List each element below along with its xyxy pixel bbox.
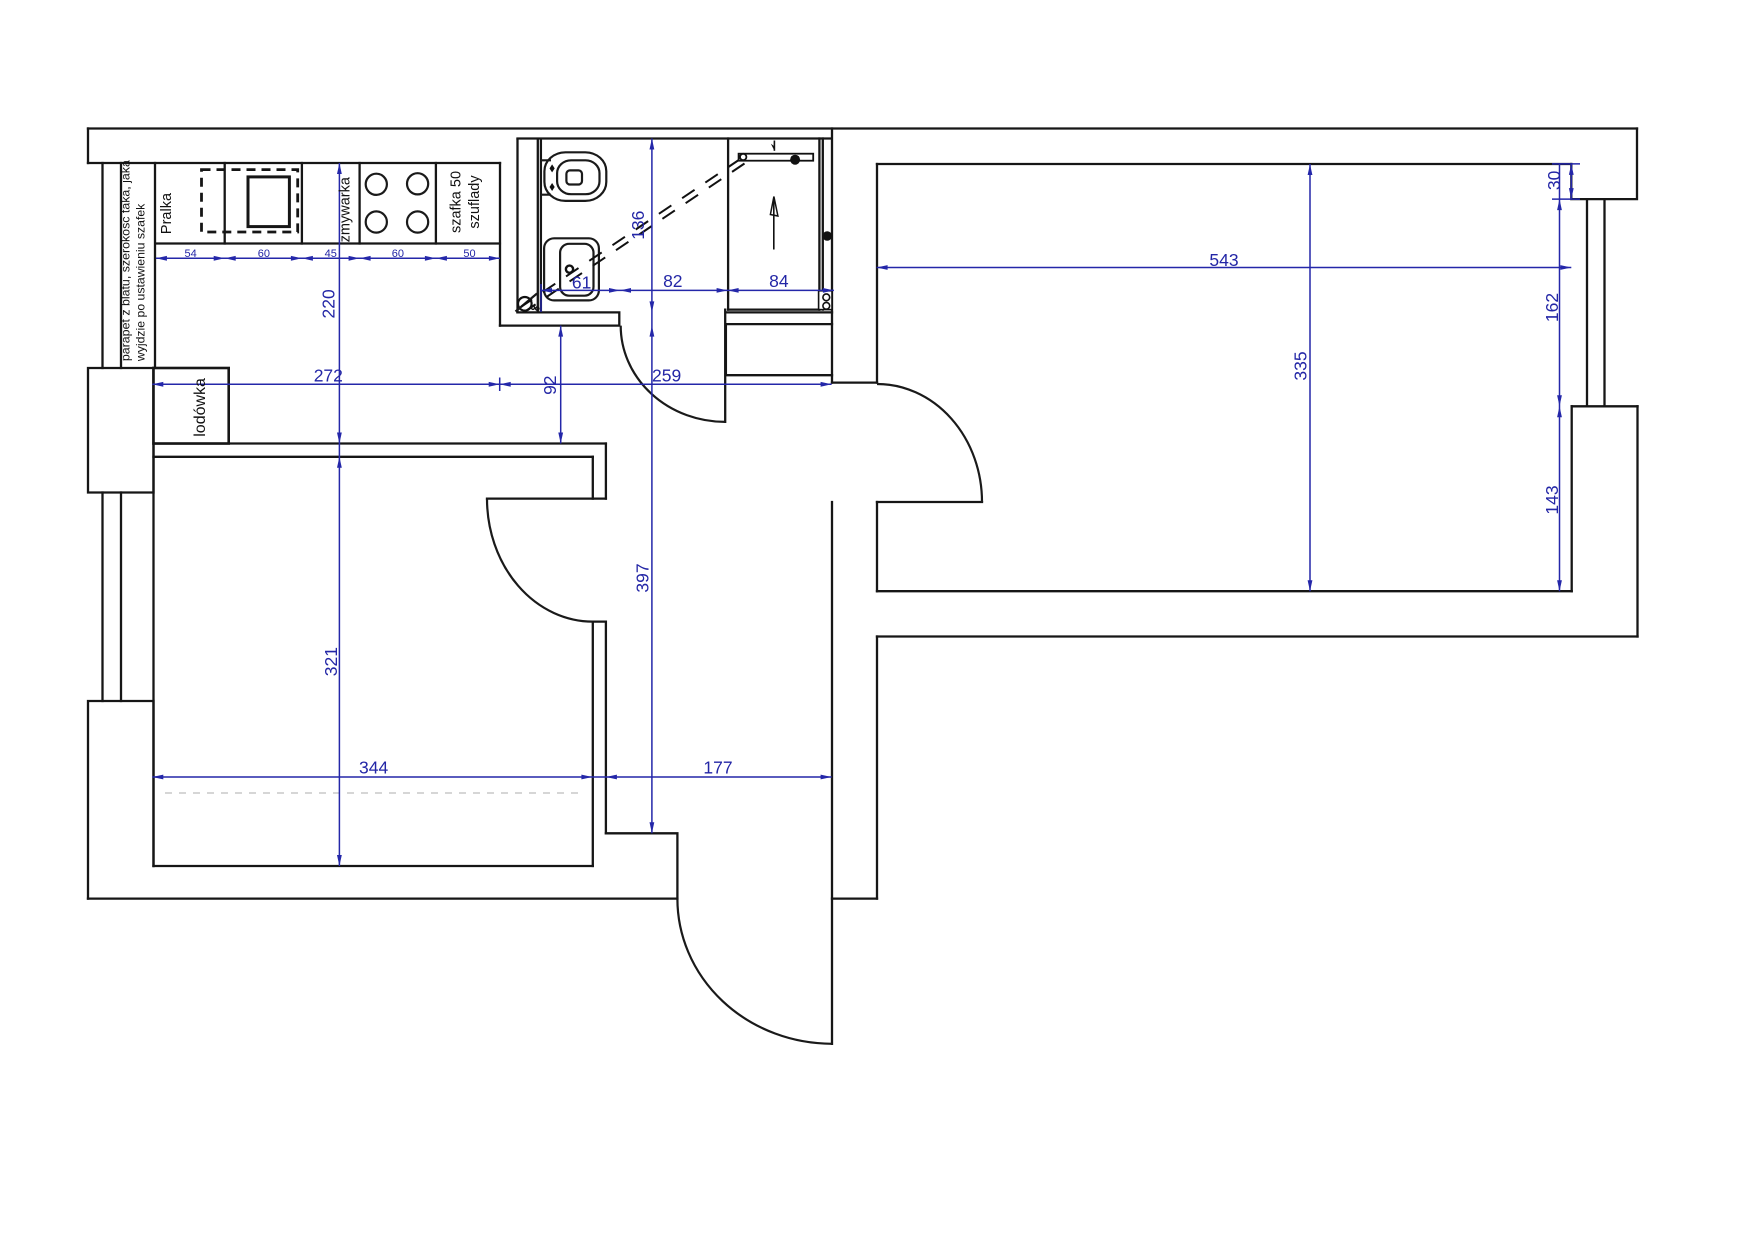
- svg-text:543: 543: [1209, 250, 1238, 270]
- door leaf: living room door leaf (horizontal): [877, 501, 982, 503]
- svg-text:220: 220: [319, 289, 339, 318]
- wall: kitchen/bedroom divider lower line: [154, 456, 593, 458]
- wall: top-left corner cap: [87, 129, 89, 164]
- dimension line: horizontal 543: [877, 267, 1572, 269]
- svg-text:143: 143: [1542, 485, 1562, 514]
- wall: top exterior wall outer line: [88, 127, 1637, 129]
- dimension line: vertical 136/397: [651, 139, 653, 834]
- appliance: oven/sink solid square: [248, 177, 289, 227]
- svg-text:92: 92: [540, 375, 560, 394]
- window: right window glass lines: [1587, 199, 1605, 406]
- fixture: shower door hinge box bottom right: [819, 291, 832, 310]
- svg-text:321: 321: [321, 647, 341, 676]
- partition: shower glass double line right: [819, 139, 822, 310]
- window: left lower window glass lines (bedroom window): [103, 493, 122, 702]
- fixture: shower rail left hinge circle: [740, 154, 746, 160]
- svg-text:344: 344: [359, 758, 388, 778]
- svg-text:parapet z blatu, szerokosc tak: parapet z blatu, szerokosc taka, jaka: [119, 160, 133, 361]
- fixture: toilet mounting stars: [550, 164, 555, 172]
- svg-text:45: 45: [325, 248, 337, 260]
- fixture: shower door hinge circles bottom right: [823, 294, 830, 301]
- svg-text:60: 60: [258, 248, 270, 260]
- svg-text:zmywarka: zmywarka: [337, 176, 353, 242]
- wall: bedroom bottom interior line: [154, 865, 593, 867]
- fixture: toilet flush square: [566, 170, 582, 184]
- svg-text:272: 272: [314, 366, 343, 386]
- wall: bathroom top line: [518, 137, 832, 139]
- wall: living room left wall lower piece: [876, 502, 878, 591]
- svg-text:50: 50: [463, 248, 475, 260]
- wall: hall right wall below living room band: [876, 637, 878, 899]
- svg-text:61: 61: [572, 272, 591, 292]
- dimension line: counters 54/60/45/60/50: [156, 257, 500, 259]
- fixture: shower head slash: [516, 294, 538, 312]
- door leaf: bathroom door leaf (vertical): [724, 310, 726, 422]
- svg-text:84: 84: [769, 271, 789, 291]
- fixture: shower head small dots: [531, 306, 534, 309]
- fixture: washbasin inner: [560, 244, 593, 296]
- fixture: toilet outer bowl: [544, 152, 606, 201]
- dimension line: horizontal 272/259: [152, 383, 831, 385]
- wall: top wall inner line above kitchen: [88, 162, 500, 164]
- fixture: shower rail bar: [739, 154, 814, 161]
- svg-text:30: 30: [1544, 170, 1564, 190]
- fixture: wall-mount dot on right shower wall: [822, 231, 832, 241]
- wall: living room interior bottom line: [877, 590, 1572, 592]
- wall block: shaft next to bathroom door (hall): [726, 324, 832, 375]
- dimension line: vertical 30/162/143: [1559, 164, 1561, 591]
- dimension line: vertical 220/321: [338, 163, 340, 866]
- wall: bottom exterior wall: [88, 897, 677, 899]
- wall: hall right wall lower piece + entry door leaf line: [831, 502, 833, 1044]
- dimension line: vertical 92: [560, 326, 562, 444]
- window: left upper window glass lines (kitchen window): [103, 163, 122, 368]
- wall: bathroom bottom line right of door: [726, 311, 832, 313]
- appliance: fridge (lodówka) box: [154, 368, 229, 444]
- svg-text:60: 60: [392, 248, 404, 260]
- guide: faint dashed line in bedroom: [165, 792, 585, 794]
- wall: right window lower jamb: [1572, 405, 1638, 407]
- partition: shower cabin left partition: [727, 139, 729, 310]
- fixture: toilet seat inner: [557, 160, 599, 194]
- pillar: left wall pier between windows: [88, 368, 154, 493]
- svg-text:wyjdzie po ustawieniu szafek: wyjdzie po ustawieniu szafek: [134, 203, 148, 362]
- dimension line: horizontal 61/82/84: [541, 289, 834, 291]
- fixture: shower direction arrow: [773, 198, 775, 250]
- appliance: washing machine dashed outline: [202, 170, 298, 232]
- kitchen counter: bottom line: [156, 242, 500, 244]
- fixture: washbasin outer: [544, 238, 599, 300]
- wall: top wall inner line above living room: [877, 163, 1571, 165]
- kitchen counter: compartment separators: [225, 163, 436, 244]
- svg-text:szuflady: szuflady: [467, 175, 483, 229]
- svg-text:259: 259: [652, 366, 681, 386]
- wall: bedroom left interior line: [152, 368, 154, 866]
- pillar: bottom-left wall pier: [88, 701, 154, 899]
- svg-text:54: 54: [184, 248, 196, 260]
- wall: top-right corner block: [1571, 129, 1637, 200]
- wall: bedroom right wall below door: [593, 622, 606, 866]
- svg-text:szafka 50: szafka 50: [449, 171, 465, 233]
- door arc: bedroom door swing: [487, 499, 593, 622]
- appliance: hob burner circles: [366, 174, 387, 195]
- svg-text:177: 177: [703, 758, 732, 778]
- fixture: shower head circle: [518, 297, 532, 311]
- svg-text:82: 82: [663, 271, 682, 291]
- wall: bathroom left outer line: [516, 140, 518, 313]
- door arc: living room door swing: [877, 384, 982, 502]
- door leaf: bedroom door leaf (horizontal): [487, 497, 606, 499]
- wall: text-strip boundary / kitchen left interior line: [154, 163, 156, 368]
- svg-text:lodówka: lodówka: [192, 378, 209, 437]
- dimension line: horizontal 344/177: [152, 776, 831, 778]
- wall: living room / hall bottom outer line: [877, 635, 1638, 637]
- wall: bathroom interior left double line: [538, 140, 541, 313]
- svg-text:162: 162: [1542, 293, 1562, 322]
- wall: bathroom bottom wall left of door: [500, 312, 619, 325]
- fixture: toilet tank lines: [541, 160, 551, 194]
- wall: bathroom/hall right wall upper (x=832): [831, 129, 833, 383]
- partition: shower tray bottom line: [728, 308, 819, 310]
- svg-text:335: 335: [1290, 351, 1310, 380]
- fixture: shower curtain diagonal double dashed line: [522, 159, 742, 307]
- door arc: bathroom door swing: [621, 326, 726, 422]
- wall: kitchen right wall line: [499, 163, 501, 326]
- fixture: washbasin tap: [566, 266, 573, 273]
- svg-text:136: 136: [628, 211, 648, 240]
- svg-text:397: 397: [632, 563, 652, 592]
- wall: bedroom right wall jamb above door: [593, 444, 606, 499]
- wall: right wall lower block: [1572, 406, 1638, 636]
- dimension line: vertical 335: [1309, 164, 1311, 591]
- fixture: small arrow above rail: [773, 141, 775, 151]
- wall: living room left wall upper line (x=877): [876, 164, 878, 383]
- door arc: entry door swing: [677, 899, 832, 1044]
- svg-text:Pralka: Pralka: [159, 192, 175, 234]
- wall: kitchen/bedroom divider upper line: [154, 442, 606, 444]
- wall: hall bottom cap at entry: [832, 897, 877, 899]
- wall: cap over living-room door: [832, 381, 877, 383]
- wall: step near entry door: [606, 833, 678, 898]
- fixture: shower rail right dot: [790, 155, 800, 165]
